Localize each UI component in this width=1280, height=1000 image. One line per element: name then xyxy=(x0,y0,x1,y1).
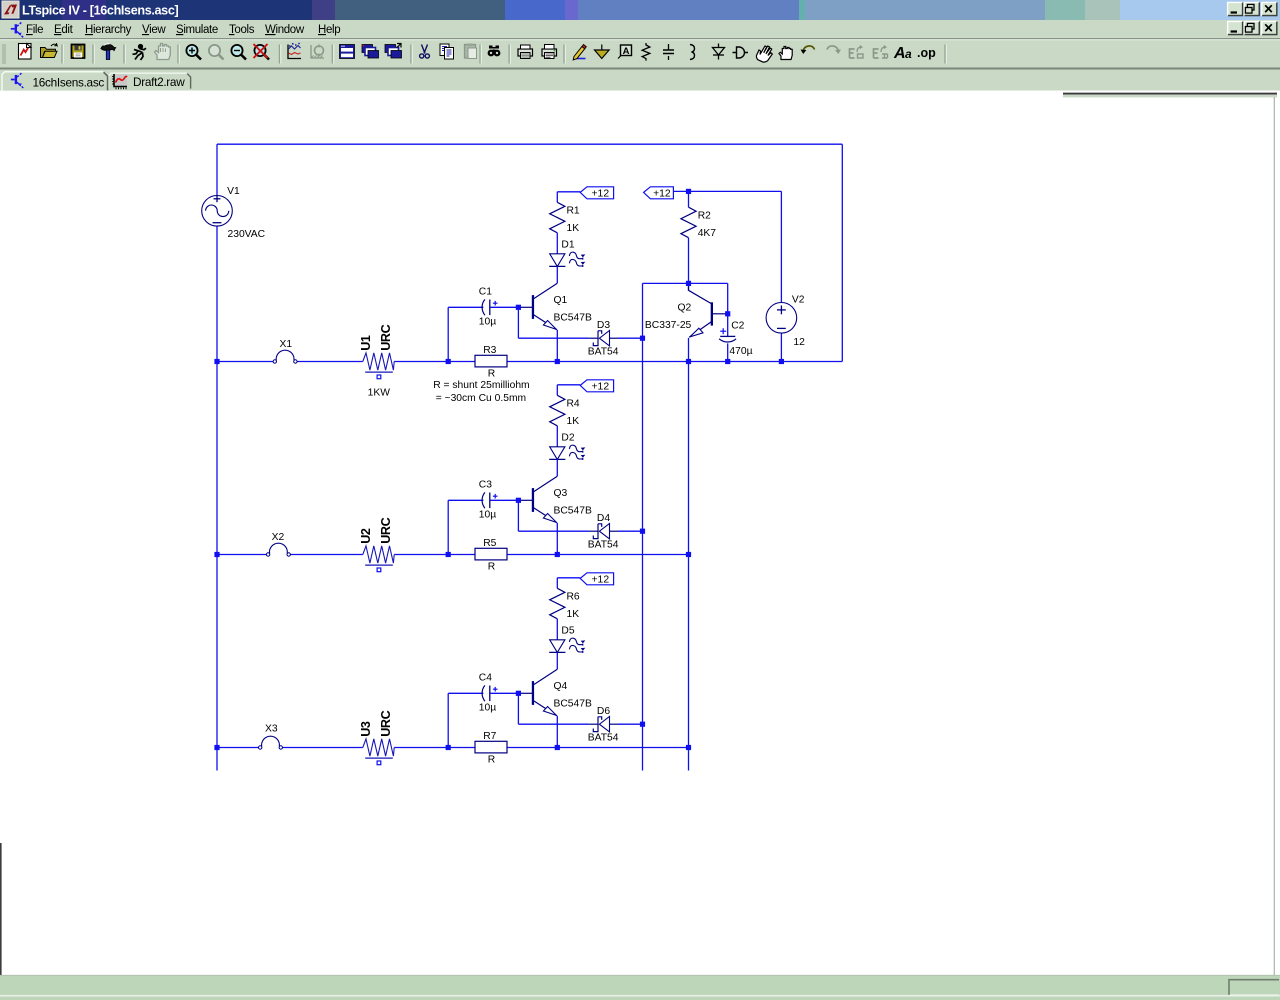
svg-text:a: a xyxy=(905,47,912,61)
toolbar icon: plot settings (grayed) xyxy=(311,45,324,59)
wire: base node down to D6 row xyxy=(517,693,519,724)
background window left edge (bottom-left) xyxy=(0,843,2,975)
wire: bus segment fuse to URC xyxy=(295,361,362,363)
wire: bus segment fuse to URC xyxy=(281,747,363,749)
toolbar icon: undo xyxy=(801,46,815,54)
junction bus/C2 xyxy=(725,359,730,364)
wire: left lead of C4 xyxy=(448,692,483,694)
svg-text:Window: Window xyxy=(265,24,305,36)
wire: V2 top lead xyxy=(780,191,782,302)
junction C1/base node xyxy=(516,305,521,310)
junction bus/left rail ch2 xyxy=(214,552,219,557)
transistor Q1 BC547B xyxy=(518,283,592,330)
resistor R1 1K xyxy=(550,202,580,234)
wire: Q1 emitter to bus xyxy=(556,330,558,362)
toolbar icon: place net name xyxy=(618,45,632,59)
wire: D5 cathode to Q4 collector xyxy=(556,652,558,669)
resistor R2 4K7 xyxy=(681,207,716,239)
wire: mid vertical net (D3/D4/D6 common) xyxy=(642,283,644,770)
svg-text:X1: X1 xyxy=(280,339,293,350)
wire: V2 bottom lead xyxy=(780,333,782,361)
junction bus/emitter xyxy=(555,359,560,364)
svg-text:BAT54: BAT54 xyxy=(588,540,619,551)
toolbar icon: print setup xyxy=(518,45,533,59)
svg-text:16chIsens.asc: 16chIsens.asc xyxy=(33,75,105,89)
junction D3 / mid vertical xyxy=(640,336,645,341)
wire: C3 to base node xyxy=(490,499,518,501)
svg-text:= ~30cm Cu 0.5mm: = ~30cm Cu 0.5mm xyxy=(436,393,526,404)
toolbar icon: print xyxy=(542,45,557,59)
toolbar icon: place capacitor xyxy=(663,44,674,60)
wire: left lead of C3 xyxy=(448,499,483,501)
svg-text:10µ: 10µ xyxy=(479,509,496,520)
toolbar grip xyxy=(3,44,5,64)
URC line U1 xyxy=(359,324,394,398)
toolbar icon: place resistor xyxy=(642,43,650,61)
wire: left lead of C1 xyxy=(448,306,483,308)
wire: V1 top lead xyxy=(216,144,218,195)
svg-text:V1: V1 xyxy=(227,186,240,197)
svg-text:R5: R5 xyxy=(483,538,496,549)
svg-text:470µ: 470µ xyxy=(729,346,752,357)
shunt resistor R3 xyxy=(475,345,507,380)
wire: C2 bottom lead xyxy=(727,343,729,361)
tab bar background xyxy=(0,70,1280,91)
svg-text:R: R xyxy=(488,369,495,380)
junction bus/output vertical xyxy=(686,359,691,364)
wire: Q4 emitter to bus xyxy=(556,716,558,748)
titlebar close button xyxy=(1262,2,1277,16)
junction R2 / Q2 collector xyxy=(686,281,691,286)
svg-text:Tools: Tools xyxy=(229,24,255,36)
toolbar icon: zoom back (grayed) xyxy=(209,45,224,60)
svg-text:X2: X2 xyxy=(272,532,285,543)
wire: D3 anode to mid vertical xyxy=(618,337,643,339)
status bar xyxy=(0,974,1280,976)
wire: bus segment URC to box resistor xyxy=(394,554,475,556)
junction bus/output vertical xyxy=(686,552,691,557)
wire: bus left segment (channel 1) xyxy=(217,361,275,363)
junction bus/emitter xyxy=(555,745,560,750)
resistor R6 1K xyxy=(550,588,580,620)
toolbar icon: place text xyxy=(893,45,912,62)
svg-text:A: A xyxy=(893,45,906,62)
wire: top horizontal (V1+ to right corner) xyxy=(217,143,842,145)
svg-text:Q4: Q4 xyxy=(554,681,568,692)
svg-text:+12: +12 xyxy=(591,575,609,586)
svg-text:R1: R1 xyxy=(567,206,580,217)
svg-text:D6: D6 xyxy=(597,706,610,717)
toolbar background xyxy=(0,41,1280,68)
wire: right vertical down to neutral bus xyxy=(841,144,843,361)
svg-text:File: File xyxy=(26,24,43,36)
junction C4/base node xyxy=(516,691,521,696)
svg-text:URC: URC xyxy=(379,324,393,350)
wire: bus segment URC to box resistor xyxy=(394,361,475,363)
svg-text:D2: D2 xyxy=(561,433,574,444)
capacitor C1 10µ xyxy=(479,286,498,327)
schottky diode D3 BAT54 xyxy=(588,320,619,358)
+12 flag (above R1) xyxy=(580,187,613,200)
junction bus/cap lead xyxy=(446,745,451,750)
svg-text:R: R xyxy=(488,755,495,766)
toolbar icon: redo (grayed) xyxy=(827,46,841,54)
+12 flag (channel 3) xyxy=(580,573,613,586)
svg-text:230VAC: 230VAC xyxy=(228,229,266,240)
toolbar icon: drag xyxy=(779,47,792,60)
fuse X2 xyxy=(266,532,290,556)
svg-text:View: View xyxy=(142,24,166,36)
svg-text:Simulate: Simulate xyxy=(176,24,218,36)
svg-text:BC547B: BC547B xyxy=(554,506,592,517)
wire: flag to R6 top xyxy=(557,577,580,579)
svg-text:Q1: Q1 xyxy=(554,295,568,306)
junction bus/left rail ch1 xyxy=(214,359,219,364)
svg-text:1K: 1K xyxy=(567,223,580,234)
junction Q2 base / C2 xyxy=(725,311,730,316)
active tab schematic icon xyxy=(11,72,23,88)
svg-text:BC547B: BC547B xyxy=(554,699,592,710)
URC line U2 xyxy=(359,517,394,571)
wire: base node down to D3 row xyxy=(517,307,519,338)
svg-text:R = shunt 25milliohm: R = shunt 25milliohm xyxy=(433,380,529,391)
svg-text:C4: C4 xyxy=(479,672,492,683)
wire: C4 left lead down to bus xyxy=(447,693,449,747)
capacitor C2 470µ (polarized, vertical) xyxy=(719,321,752,358)
junction bus/V2 xyxy=(779,359,784,364)
svg-text:1KW: 1KW xyxy=(368,387,391,398)
wire: D1 cathode to Q1 collector xyxy=(556,266,558,283)
toolbar icon: run xyxy=(133,45,147,60)
wire: Q3 emitter to bus xyxy=(556,523,558,555)
wire: R1 to D1 xyxy=(556,233,558,254)
svg-text:Help: Help xyxy=(318,24,340,36)
junction C3/base node xyxy=(516,498,521,503)
background window right edge xyxy=(1273,97,1275,975)
capacitor C4 10µ xyxy=(479,672,498,713)
toolbar icon: spice directive .op xyxy=(917,46,936,60)
svg-text:BAT54: BAT54 xyxy=(588,347,619,358)
wire: bus right segment xyxy=(507,747,689,749)
svg-text:URC: URC xyxy=(379,710,393,736)
LED D2 xyxy=(549,433,585,461)
wire: D2 cathode to Q3 collector xyxy=(556,459,558,476)
wire: left vertical rail (phase) xyxy=(216,226,218,771)
toolbar icon: rotate (grayed) xyxy=(874,46,888,59)
toolbar icon: draw wire xyxy=(573,45,586,60)
transistor Q2 BC337-25 (mirrored NPN) xyxy=(645,283,728,337)
svg-text:D5: D5 xyxy=(561,626,574,637)
wire: bus left segment (channel 3) xyxy=(217,747,260,749)
toolbar icon: tile horizontally xyxy=(340,45,355,59)
toolbar icon: paste (grayed) xyxy=(465,44,477,59)
svg-text:R6: R6 xyxy=(567,592,580,603)
wire: bus segment fuse to URC xyxy=(289,554,363,556)
svg-text:1K: 1K xyxy=(567,609,580,620)
svg-text:R: R xyxy=(488,562,495,573)
schottky diode D6 BAT54 xyxy=(588,706,619,744)
toolbar icon: place diode xyxy=(713,44,725,60)
toolbar icon: find binoculars xyxy=(488,46,501,57)
wire: R2 bottom node to Q2 collector xyxy=(688,283,690,290)
svg-text:D3: D3 xyxy=(597,320,610,331)
shunt resistor R5 xyxy=(475,538,507,573)
schottky diode D4 BAT54 xyxy=(588,513,619,551)
junction bus/output vertical xyxy=(686,745,691,750)
transistor Q4 BC547B xyxy=(518,669,592,716)
wire: C3 left lead down to bus xyxy=(447,500,449,554)
svg-text:4K7: 4K7 xyxy=(698,228,717,239)
svg-text:R3: R3 xyxy=(483,345,496,356)
svg-text:1K: 1K xyxy=(567,416,580,427)
wire: bus left segment (channel 2) xyxy=(217,554,268,556)
transistor Q3 BC547B xyxy=(518,476,592,523)
svg-text:.op: .op xyxy=(917,46,936,60)
svg-text:Draft2.raw: Draft2.raw xyxy=(133,75,185,89)
+12 flag (channel 2) xyxy=(580,380,613,393)
svg-text:BC547B: BC547B xyxy=(554,313,592,324)
toolbar icon: copy xyxy=(440,44,454,59)
wire: Q2 collector rail xyxy=(643,282,728,284)
fuse X1 xyxy=(273,339,297,363)
svg-text:D4: D4 xyxy=(597,513,610,524)
svg-text:U1: U1 xyxy=(359,335,373,351)
svg-text:C1: C1 xyxy=(479,286,492,297)
svg-text:URC: URC xyxy=(379,517,393,543)
svg-text:+12: +12 xyxy=(653,189,671,200)
svg-text:X3: X3 xyxy=(265,723,278,734)
toolbar icon: save xyxy=(72,45,85,59)
toolbar icon: control panel hammer xyxy=(101,44,116,60)
toolbar icon: cascade windows xyxy=(385,44,402,59)
titlebar minimize button xyxy=(1228,2,1243,16)
wire: R2 top lead xyxy=(688,191,690,207)
Draft2.raw tab icon (waveform) xyxy=(115,75,127,86)
wire: emitter/output vertical lower segment xyxy=(688,338,690,771)
URC line U3 xyxy=(359,710,394,764)
svg-text:C3: C3 xyxy=(479,479,492,490)
junction bus/cap lead xyxy=(446,552,451,557)
toolbar icon: cut xyxy=(420,45,430,59)
wire: flag to R1 top xyxy=(557,191,580,193)
wire: base node down to D4 row xyxy=(517,500,519,531)
toolbar icon: move xyxy=(756,46,772,62)
shunt resistor R7 xyxy=(475,731,507,766)
svg-text:R4: R4 xyxy=(567,399,580,410)
wire: R2 bottom lead xyxy=(688,238,690,284)
wire: bus segment URC to box resistor xyxy=(394,747,475,749)
wire: C4 to base node xyxy=(490,692,518,694)
toolbar icon: open file xyxy=(41,43,58,57)
background window top edge (right side) xyxy=(1063,93,1277,95)
LTspice application icon xyxy=(2,1,19,18)
wire: bus right segment xyxy=(507,361,842,363)
resistor R4 1K xyxy=(550,395,580,427)
junction bus/emitter xyxy=(555,552,560,557)
svg-text:+12: +12 xyxy=(591,382,609,393)
toolbar icon: halt (grayed hand) xyxy=(155,44,171,60)
svg-text:U2: U2 xyxy=(359,528,373,544)
wire: R6 to D5 xyxy=(556,619,558,640)
LED D5 xyxy=(549,626,585,654)
status bar right pane xyxy=(1229,980,1279,995)
wire: to D6 cathode xyxy=(518,723,589,725)
active tab 16chIsens.asc xyxy=(2,72,108,91)
svg-text:LTspice IV - [16chIsens.asc]: LTspice IV - [16chIsens.asc] xyxy=(22,4,178,18)
svg-text:V2: V2 xyxy=(792,294,805,305)
titlebar restore button xyxy=(1244,2,1259,16)
toolbar icon: new schematic xyxy=(19,44,32,60)
toolbar icon: tile vertically xyxy=(362,45,379,59)
svg-text:Q3: Q3 xyxy=(554,488,568,499)
toolbar icon: zoom out xyxy=(231,45,246,60)
wire: flag to R4 top xyxy=(557,384,580,386)
toolbar icon: place ground xyxy=(595,45,610,59)
svg-text:R2: R2 xyxy=(698,211,711,222)
menu bar xyxy=(0,20,1280,41)
LED D1 xyxy=(549,240,585,268)
schematic child-window icon xyxy=(11,22,23,38)
svg-text:Q2: Q2 xyxy=(678,303,692,314)
toolbar icon: place inductor xyxy=(690,45,695,60)
toolbar icon: zoom full extents xyxy=(254,44,270,60)
svg-text:BC337-25: BC337-25 xyxy=(645,320,692,331)
capacitor C3 10µ xyxy=(479,479,498,520)
svg-text:+12: +12 xyxy=(591,189,609,200)
+12 flag (feeding V2 rail) xyxy=(644,187,674,200)
svg-text:12: 12 xyxy=(793,337,805,348)
junction bus/cap lead xyxy=(446,359,451,364)
toolbar icon: place component xyxy=(733,47,749,58)
wire: to D4 cathode xyxy=(518,530,589,532)
menubar close button xyxy=(1262,21,1277,35)
menubar minimize button xyxy=(1228,21,1243,35)
toolbar icon: zoom in xyxy=(186,45,201,60)
svg-text:C2: C2 xyxy=(731,321,744,332)
wire: C1 to base node xyxy=(490,306,518,308)
svg-text:Edit: Edit xyxy=(54,24,74,36)
svg-text:A: A xyxy=(623,46,630,57)
wire: D6 anode to mid vertical xyxy=(618,723,643,725)
wire: bus right segment xyxy=(507,554,689,556)
wire: Q2 base / C2 top vertical xyxy=(727,283,729,336)
inactive tab Draft2.raw xyxy=(109,73,191,89)
voltage source V2 12V xyxy=(766,303,797,334)
wire: D4 anode to mid vertical xyxy=(618,530,643,532)
svg-text:R7: R7 xyxy=(483,731,496,742)
svg-text:U3: U3 xyxy=(359,721,373,737)
svg-text:10µ: 10µ xyxy=(479,702,496,713)
junction +12 rail / R2 xyxy=(686,189,691,194)
junction D6 / mid vertical xyxy=(640,722,645,727)
wire: to D3 cathode xyxy=(518,337,589,339)
wire: +12 rail to V2 xyxy=(673,190,781,192)
fuse X3 xyxy=(259,723,283,749)
toolbar icon: mirror (grayed) xyxy=(850,46,864,59)
toolbar icon: autorange y-axis xyxy=(288,44,301,59)
menubar restore button xyxy=(1244,21,1259,35)
wire: R4 to D2 xyxy=(556,426,558,447)
svg-text:BAT54: BAT54 xyxy=(588,733,619,744)
junction D4 / mid vertical xyxy=(640,529,645,534)
svg-text:Hierarchy: Hierarchy xyxy=(85,24,132,36)
svg-text:D1: D1 xyxy=(561,240,574,251)
junction bus/left rail ch3 xyxy=(214,745,219,750)
svg-text:10µ: 10µ xyxy=(479,316,496,327)
wire: C1 left lead down to bus xyxy=(447,307,449,361)
voltage source V1 230VAC xyxy=(202,195,233,226)
